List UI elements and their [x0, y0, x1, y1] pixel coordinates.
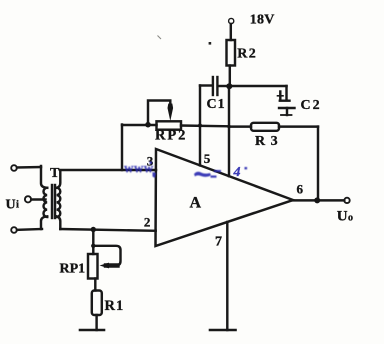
svg-text:6: 6: [297, 182, 304, 197]
svg-text:U: U: [337, 209, 348, 225]
svg-text:T: T: [50, 166, 60, 181]
svg-text:RP2: RP2: [155, 127, 187, 143]
svg-text:18V: 18V: [250, 13, 275, 28]
svg-text:5: 5: [204, 151, 211, 166]
svg-text:WWW: WWW: [124, 166, 154, 176]
svg-text:R3: R3: [255, 134, 283, 149]
svg-text:i: i: [16, 199, 19, 211]
svg-text:A: A: [190, 195, 202, 212]
svg-text:C2: C2: [301, 98, 322, 113]
svg-text:o: o: [348, 213, 353, 224]
svg-text:7: 7: [215, 234, 222, 249]
svg-text:RP1: RP1: [60, 262, 86, 277]
svg-text:R2: R2: [237, 47, 257, 62]
svg-text:2: 2: [144, 214, 151, 229]
svg-text:4: 4: [233, 165, 241, 180]
svg-text:U: U: [6, 198, 16, 213]
svg-text:C1: C1: [207, 97, 226, 112]
svg-text:R1: R1: [105, 298, 125, 314]
